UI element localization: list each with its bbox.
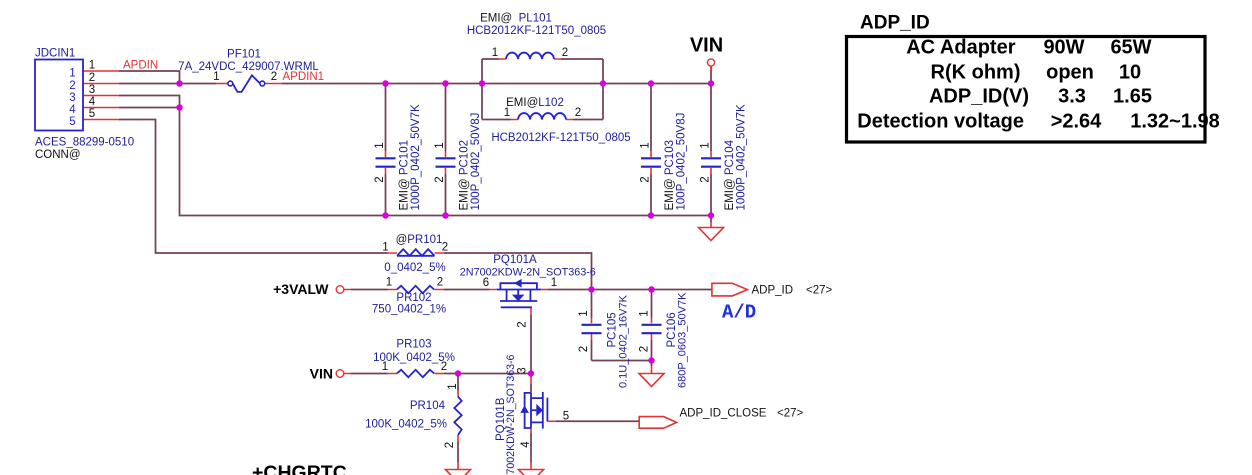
table row ADP_ID(V) (929, 86, 1152, 108)
svg-text:Detection voltage: Detection voltage (857, 111, 1024, 133)
svg-text:5: 5 (89, 108, 95, 120)
svg-text:2N7002KDW-2N_SOT363-6: 2N7002KDW-2N_SOT363-6 (460, 267, 596, 279)
junction loop left (479, 80, 485, 86)
wire PL101 row (482, 58, 603, 60)
svg-text:1: 1 (640, 142, 652, 148)
wire PC106 legs (651, 290, 653, 361)
svg-text:1: 1 (434, 142, 446, 148)
wire PQ101A pin2 down to node 3 (530, 307, 532, 373)
table row R(K ohm) (931, 62, 1142, 84)
wire net APDIN1 main bus (265, 83, 711, 85)
svg-text:ADP_ID(V): ADP_ID(V) (929, 86, 1029, 108)
svg-text:1: 1 (639, 310, 651, 316)
svg-text:<27>: <27> (777, 408, 804, 420)
svg-text:APDIN1: APDIN1 (283, 71, 325, 83)
svg-text:2: 2 (517, 321, 529, 327)
junction PC103 top (648, 80, 654, 86)
svg-text:1: 1 (382, 242, 388, 254)
wire to ground under VIN column (710, 216, 712, 228)
svg-text:1: 1 (382, 361, 388, 373)
transistor PQ101A (497, 279, 542, 307)
svg-text:1.32~1.98: 1.32~1.98 (1130, 111, 1220, 133)
junction pins1-2 (176, 80, 182, 86)
capacitor PC104 labels (700, 104, 748, 210)
svg-text:1: 1 (700, 142, 712, 148)
transistor PQ101B (520, 392, 547, 429)
svg-text:1000P_0402_50V7K: 1000P_0402_50V7K (410, 104, 422, 210)
svg-text:EMI@ PC103: EMI@ PC103 (664, 140, 676, 211)
svg-text:EMI@ PC104: EMI@ PC104 (724, 139, 736, 210)
svg-text:4: 4 (89, 96, 96, 108)
svg-text:PR102: PR102 (396, 292, 431, 304)
svg-text:PR104: PR104 (410, 400, 446, 412)
wire L102 row (482, 119, 603, 121)
capacitor PC102 plates (436, 158, 456, 166)
svg-text:1: 1 (551, 277, 557, 289)
wire ADP_ID net (542, 289, 712, 291)
svg-text:1: 1 (374, 142, 386, 148)
wire connector pin5 to PR101 (83, 120, 388, 254)
svg-text:APDIN: APDIN (123, 60, 158, 72)
fuse PF101 (228, 75, 265, 92)
wire PQ101B drain top (530, 374, 532, 393)
svg-text:100P_0402_50V8J: 100P_0402_50V8J (470, 113, 482, 211)
wire VIN top drop (710, 66, 712, 84)
wire connector pin4 (83, 107, 180, 109)
junction node 3 PQ101B (528, 370, 534, 376)
wire net APDIN pin2 (83, 83, 216, 85)
svg-text:2: 2 (444, 442, 456, 448)
wire PR101 output to PQ101A drain node (388, 253, 592, 290)
svg-text:1000P_0402_50V7K: 1000P_0402_50V7K (736, 104, 748, 210)
svg-text:HCB2012KF-121T50_0805: HCB2012KF-121T50_0805 (491, 132, 630, 144)
svg-text:ACES_88299-0510: ACES_88299-0510 (35, 137, 134, 149)
svg-text:2: 2 (69, 80, 75, 92)
resistor PR103 (397, 370, 434, 377)
svg-text:5: 5 (69, 116, 75, 128)
svg-text:+3VALW: +3VALW (273, 281, 329, 297)
junction PC102 bottom (442, 212, 448, 218)
svg-text:3: 3 (69, 92, 75, 104)
svg-text:2: 2 (700, 176, 712, 182)
svg-text:10: 10 (1119, 62, 1141, 84)
svg-text:ADP_ID_CLOSE: ADP_ID_CLOSE (680, 408, 767, 420)
wire PC105 bottom to PC106 bottom (592, 360, 652, 362)
svg-text:1: 1 (447, 383, 459, 389)
wire inductor loop right vertical (602, 59, 604, 120)
capacitor PC105 plates (582, 325, 602, 333)
ground under PQ101B (519, 470, 544, 475)
capacitor PC101 labels (374, 104, 422, 210)
connector inside pin numbers (69, 68, 76, 129)
svg-text:7002KDW-2N_SOT363-6: 7002KDW-2N_SOT363-6 (505, 354, 517, 474)
svg-text:open: open (1046, 62, 1094, 84)
svg-text:EMI@L102: EMI@L102 (506, 97, 564, 109)
resistor PR102 (397, 286, 434, 293)
svg-text:HCB2012KF-121T50_0805: HCB2012KF-121T50_0805 (467, 25, 606, 37)
junction pins3-4 (176, 104, 182, 110)
svg-text:3: 3 (89, 84, 95, 96)
power VIN left symbol (336, 370, 344, 378)
wire PC101 legs (385, 84, 387, 216)
wire PQ101B gate to ADP_ID_CLOSE (547, 420, 639, 422)
wire PQ101B source to ground (530, 428, 532, 470)
svg-text:65W: 65W (1110, 37, 1151, 59)
svg-text:1: 1 (504, 107, 510, 119)
wire +3VALW to PR102 (343, 289, 397, 291)
table box (847, 37, 1206, 143)
wire PC106 to ground (651, 361, 653, 374)
resistor PR101 zero-ohm (397, 249, 435, 256)
svg-text:2: 2 (437, 277, 443, 289)
svg-text:+CHGRTC: +CHGRTC (252, 462, 347, 475)
power +3VALW symbol (336, 286, 344, 294)
svg-text:750_0402_1%: 750_0402_1% (372, 304, 446, 316)
svg-text:VIN: VIN (690, 35, 723, 57)
junction PC105 top node (588, 286, 594, 292)
svg-text:2: 2 (271, 71, 277, 83)
svg-text:PR103: PR103 (396, 339, 431, 351)
svg-text:CONN@: CONN@ (35, 149, 81, 161)
wire ground return bus (180, 108, 712, 216)
junction PC101 bottom (382, 212, 388, 218)
svg-text:A/D: A/D (722, 302, 756, 324)
svg-text:1: 1 (69, 68, 75, 80)
svg-text:0.1U_0402_16V7K: 0.1U_0402_16V7K (618, 294, 630, 388)
svg-text:1: 1 (386, 277, 392, 289)
svg-text:2: 2 (562, 47, 568, 59)
capacitor PC105 labels (578, 294, 630, 388)
wire connector pin3 (83, 96, 180, 108)
svg-text:ADP_ID: ADP_ID (860, 13, 930, 34)
svg-text:AC Adapter: AC Adapter (906, 37, 1015, 59)
svg-text:PQ101A: PQ101A (493, 254, 537, 266)
svg-text:680P_0603_50V7K: 680P_0603_50V7K (677, 292, 689, 388)
svg-text:1: 1 (492, 47, 498, 59)
svg-text:EMI@ PC102: EMI@ PC102 (459, 140, 471, 211)
svg-text:1: 1 (89, 60, 95, 72)
capacitor PC106 labels (639, 292, 689, 388)
svg-text:4: 4 (520, 441, 532, 448)
svg-text:5: 5 (563, 411, 569, 423)
ground under PC106 (639, 374, 664, 387)
svg-text:@PR101: @PR101 (396, 234, 443, 246)
wire PC105 legs (591, 290, 593, 361)
off-page connector ADP_ID (712, 283, 748, 296)
svg-text:1: 1 (578, 310, 590, 316)
wire net APDIN pin1 (83, 71, 180, 84)
ground under PR104 (446, 470, 471, 475)
wire inductor loop left vertical (481, 59, 483, 120)
svg-text:2: 2 (639, 346, 651, 352)
svg-text:2: 2 (578, 346, 590, 352)
svg-text:2: 2 (575, 107, 581, 119)
svg-text:90W: 90W (1043, 37, 1084, 59)
off-page connector ADP_ID_CLOSE (639, 417, 676, 429)
wire PC102 legs (445, 84, 447, 216)
capacitor PC103 plates (641, 158, 661, 166)
svg-text:2: 2 (441, 361, 447, 373)
svg-text:4: 4 (69, 104, 76, 116)
svg-text:2: 2 (640, 176, 652, 182)
junction PR103-PR104 node (455, 370, 461, 376)
svg-text:<27>: <27> (806, 285, 833, 297)
svg-text:1: 1 (213, 71, 219, 83)
junction ground column bottom (708, 212, 714, 218)
svg-text:JDCIN1: JDCIN1 (35, 48, 75, 60)
capacitor PC104 plates (701, 158, 721, 166)
svg-text:2: 2 (374, 176, 386, 182)
svg-text:2: 2 (89, 72, 95, 84)
junction loop right (600, 80, 606, 86)
junction PC101 top (382, 80, 388, 86)
capacitor PC102 labels (434, 113, 482, 211)
junction PC102 top (442, 80, 448, 86)
svg-text:2: 2 (434, 176, 446, 182)
table row Detection voltage (857, 111, 1219, 133)
svg-text:ADP_ID: ADP_ID (752, 285, 794, 297)
connector outside pin numbers (89, 60, 96, 121)
table row AC Adapter (906, 37, 1151, 59)
svg-text:PF101: PF101 (227, 49, 261, 61)
wire VIN left to PR103 (343, 373, 397, 375)
svg-text:>2.64: >2.64 (1051, 111, 1102, 133)
resistor PR104 (454, 397, 461, 436)
svg-text:0_0402_5%: 0_0402_5% (384, 262, 445, 274)
wire PR102 to PQ101A gate (435, 289, 497, 291)
inductor L102 (518, 113, 566, 119)
wire PR104 column (457, 374, 459, 470)
svg-text:R(K ohm): R(K ohm) (931, 62, 1021, 84)
wire PR103 to node 3 (435, 373, 532, 375)
junction VIN column (708, 80, 714, 86)
wire PC103 legs (650, 84, 652, 216)
svg-text:VIN: VIN (310, 366, 333, 382)
svg-text:3.3: 3.3 (1058, 86, 1086, 108)
svg-text:EMI@ PL101: EMI@ PL101 (480, 13, 552, 25)
capacitor PC103 labels (640, 113, 688, 211)
svg-text:EMI@ PC101: EMI@ PC101 (399, 140, 411, 211)
svg-text:1.65: 1.65 (1113, 86, 1152, 108)
wire PC104 legs (710, 84, 712, 216)
wire fuse pin1 stub (216, 83, 228, 85)
svg-text:100K_0402_5%: 100K_0402_5% (365, 419, 447, 431)
capacitor PC106 plates (642, 325, 662, 333)
junction PC105-PC106 bottom node (648, 357, 654, 363)
junction PC103 bottom (648, 212, 654, 218)
svg-text:3: 3 (517, 367, 529, 373)
connector JDCIN1 body (35, 60, 83, 131)
junction PC106 top node (648, 286, 654, 292)
power VIN top symbol (707, 59, 714, 66)
svg-text:100P_0402_50V8J: 100P_0402_50V8J (676, 113, 688, 211)
svg-text:2: 2 (442, 242, 448, 254)
svg-text:6: 6 (483, 277, 489, 289)
capacitor PC101 plates (376, 158, 396, 166)
inductor PL101 (506, 53, 554, 59)
ground under VIN column (699, 228, 724, 241)
